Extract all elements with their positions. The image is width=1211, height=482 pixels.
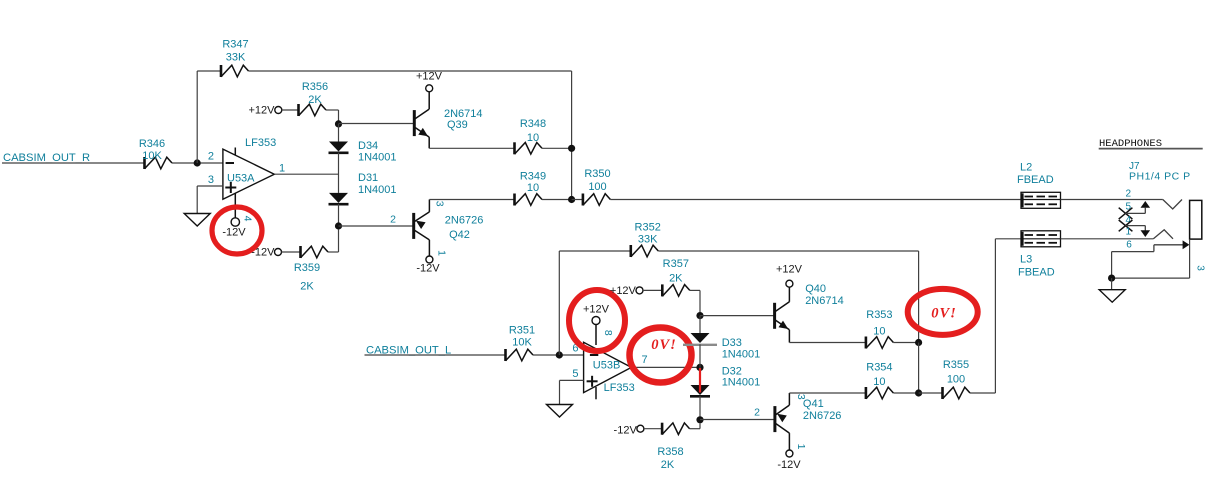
pin 2 label Q42	[390, 213, 396, 225]
svg-text:10K: 10K	[512, 337, 532, 349]
svg-text:CABSIM_OUT_R: CABSIM_OUT_R	[3, 152, 90, 164]
svg-text:R353: R353	[866, 309, 892, 321]
wire top feedback right	[249, 70, 572, 72]
wire sleeve bottom	[1112, 277, 1190, 279]
svg-text:FBEAD: FBEAD	[1018, 267, 1055, 279]
svg-text:33K: 33K	[638, 233, 658, 245]
wire R356 to diode chain	[326, 110, 339, 124]
svg-text:0V!: 0V!	[651, 337, 677, 353]
wire lower chain seg2	[699, 344, 701, 367]
wire R355 to riser	[970, 392, 995, 394]
svg-text:Q40: Q40	[805, 283, 826, 295]
pin 4 label J7	[1125, 215, 1131, 226]
wire R350 to L2	[610, 199, 1021, 201]
svg-text:U53B: U53B	[593, 360, 621, 372]
wire lower chain seg1	[699, 316, 701, 333]
wire R351 to node B	[533, 354, 584, 356]
resistor R356	[299, 81, 329, 116]
svg-text:R354: R354	[866, 362, 892, 374]
svg-text:R352: R352	[635, 221, 661, 233]
svg-text:8: 8	[602, 330, 614, 336]
svg-text:1: 1	[795, 444, 807, 450]
power +12V Q40	[776, 264, 803, 288]
pin 4 switch mark	[1119, 220, 1133, 231]
svg-text:R348: R348	[520, 118, 546, 130]
pin 5 label J7	[1125, 201, 1131, 212]
wire L2 to jack	[1061, 199, 1163, 201]
junction R349 node	[568, 196, 575, 203]
red circle annotation around -12V pin	[212, 207, 262, 254]
svg-text:LF353: LF353	[604, 382, 635, 394]
pin 1 label Q42	[435, 250, 447, 256]
wire emitter Q41 to R354	[789, 392, 866, 394]
svg-text:2: 2	[754, 407, 760, 419]
resistor R351	[506, 325, 536, 362]
svg-text:D31: D31	[358, 172, 378, 184]
ferrite bead L3	[1018, 231, 1061, 279]
svg-text:3: 3	[1195, 265, 1206, 271]
wire CABSIM_OUT_L input	[365, 354, 506, 356]
op-amp U53B	[572, 342, 647, 399]
pin 5 switch mark	[1119, 201, 1150, 219]
wire emitter Q39 to R348	[429, 147, 514, 149]
power -12V Q42	[416, 256, 440, 275]
svg-text:100: 100	[588, 181, 606, 193]
svg-text:U53A: U53A	[227, 173, 255, 185]
wire R346 to node A	[172, 162, 223, 164]
wire chain seg1	[338, 124, 340, 142]
wire R354 to junction	[893, 392, 918, 394]
net label CABSIM_OUT_R	[3, 152, 90, 164]
label PH1/4 PC P	[1129, 170, 1191, 182]
wire riser output node	[918, 343, 920, 394]
pin 3 label Q42	[433, 201, 445, 207]
power +12V for R357	[610, 285, 643, 297]
diode D32	[690, 365, 760, 396]
svg-text:PH1/4 PC P: PH1/4 PC P	[1129, 170, 1191, 182]
junction R348 node	[568, 145, 575, 152]
wire to ground G3	[1111, 278, 1113, 290]
wire L3 to jack	[1061, 238, 1154, 240]
svg-text:L2: L2	[1020, 162, 1032, 174]
resistor R353	[866, 309, 894, 349]
svg-text:7: 7	[642, 354, 648, 366]
transistor Q41	[775, 393, 842, 450]
svg-text:-12V: -12V	[614, 425, 638, 437]
wire pin 3 down	[1189, 239, 1191, 278]
svg-text:+12V: +12V	[610, 285, 637, 297]
wire L3 through	[1021, 238, 1061, 240]
connector J7 body	[1190, 200, 1202, 239]
label -12V U53A pin4	[222, 227, 246, 239]
svg-text:D33: D33	[722, 337, 742, 349]
svg-text:10: 10	[873, 326, 885, 338]
resistor R359	[294, 246, 328, 293]
junction R353 node	[915, 339, 922, 346]
junction sleeve ground	[1108, 275, 1115, 282]
wire U53B pin5	[560, 380, 584, 404]
svg-text:6: 6	[1126, 240, 1132, 251]
transistor Q42	[414, 200, 484, 257]
pin 2 label J7	[1125, 188, 1131, 199]
svg-text:1N4001: 1N4001	[358, 152, 397, 164]
svg-text:+12V: +12V	[776, 264, 803, 276]
wire feedback riser left	[196, 71, 198, 163]
wire +12V to R357	[643, 289, 662, 291]
svg-text:Q42: Q42	[449, 229, 470, 241]
wire base Q41	[700, 419, 775, 421]
svg-text:-12V: -12V	[777, 459, 801, 471]
diode D33	[691, 333, 761, 361]
resistor R348	[515, 118, 547, 154]
junction diode chain top	[335, 120, 342, 127]
svg-text:R358: R358	[657, 446, 683, 458]
junction R354 node	[915, 389, 922, 396]
power -12V for R359	[251, 247, 281, 259]
svg-text:LF353: LF353	[245, 137, 276, 149]
pin 2 label Q41	[754, 407, 760, 419]
svg-text:10: 10	[527, 132, 539, 144]
node A junction	[194, 159, 201, 166]
svg-text:-12V: -12V	[222, 227, 246, 239]
wire base Q40	[700, 315, 775, 317]
svg-text:-12V: -12V	[251, 247, 275, 259]
svg-text:1: 1	[435, 250, 447, 256]
wire U53A pin3	[197, 186, 223, 214]
svg-text:1N4001: 1N4001	[358, 184, 397, 196]
svg-text:D32: D32	[722, 365, 742, 377]
wire R348 to junction	[542, 147, 572, 149]
svg-text:-12V: -12V	[416, 263, 440, 275]
resistor R354	[866, 362, 894, 400]
svg-text:Q41: Q41	[803, 398, 824, 410]
wire L2 through	[1021, 199, 1061, 201]
svg-text:5: 5	[572, 368, 578, 380]
wire R349 to junction	[542, 199, 572, 201]
power -12V Q41	[777, 450, 801, 471]
power -12V for R358	[614, 425, 644, 437]
ground symbol G3	[1099, 290, 1125, 303]
svg-text:0V!: 0V!	[931, 306, 957, 322]
wire lower chain seg3	[699, 367, 701, 385]
svg-text:2: 2	[390, 213, 396, 225]
resistor R350	[572, 168, 611, 206]
svg-text:2N6726: 2N6726	[803, 410, 842, 422]
svg-text:1: 1	[1125, 227, 1131, 238]
gray cathode bar D33	[683, 344, 717, 346]
resistor R349	[515, 171, 547, 206]
svg-text:R349: R349	[520, 171, 546, 183]
wire emitter Q40 to R353	[789, 342, 866, 344]
svg-text:3: 3	[795, 394, 807, 400]
svg-text:+12V: +12V	[416, 71, 443, 83]
junction diode chain bottom	[335, 222, 342, 229]
svg-text:+12V: +12V	[249, 105, 276, 117]
red mark on diode wire	[699, 368, 701, 393]
svg-text:L3: L3	[1020, 254, 1032, 266]
junction lower chain bottom	[696, 416, 703, 423]
op-amp U53A pin 4 power stub	[231, 193, 254, 226]
wire feedback row right	[658, 250, 918, 252]
svg-text:R356: R356	[302, 81, 328, 93]
svg-text:1N4001: 1N4001	[722, 377, 761, 389]
header HEADPHONES	[1099, 138, 1203, 150]
power +12V for R356	[249, 105, 282, 117]
pin 6 label J7	[1126, 240, 1132, 251]
svg-text:10: 10	[873, 376, 885, 388]
wire lower chain seg4	[699, 396, 701, 420]
svg-text:100: 100	[947, 374, 965, 386]
wire chain seg3	[338, 204, 340, 226]
pin 3 label Q41	[795, 394, 807, 400]
svg-text:2K: 2K	[308, 94, 322, 106]
wire CABSIM_OUT_R input	[2, 162, 145, 164]
wire feedback row left	[559, 250, 631, 252]
wire base Q39	[339, 123, 415, 125]
resistor R346	[139, 138, 172, 169]
svg-text:10K: 10K	[142, 150, 162, 162]
svg-text:R355: R355	[943, 359, 969, 371]
wire emitter Q42 to R349	[429, 199, 514, 201]
resistor R358	[657, 423, 689, 471]
wire R358 to junction	[690, 423, 700, 428]
ground symbol G2	[547, 405, 573, 418]
red circle annotation around +12V pin	[569, 290, 625, 351]
svg-text:R347: R347	[222, 39, 248, 51]
svg-text:33K: 33K	[226, 52, 246, 64]
label +12V U53B pin8	[583, 304, 610, 316]
svg-text:4: 4	[242, 216, 254, 222]
resistor R357	[662, 258, 690, 296]
svg-text:R357: R357	[663, 258, 689, 270]
svg-text:10: 10	[527, 182, 539, 194]
wire to L3	[995, 238, 1021, 240]
wire top feedback left	[197, 70, 221, 72]
resistor R352	[631, 221, 661, 257]
wire U53B output pin7	[631, 366, 700, 368]
svg-text:1: 1	[279, 163, 285, 175]
ground symbol G1	[184, 214, 210, 227]
svg-text:1N4001: 1N4001	[722, 349, 761, 361]
wire feedback riser x559	[558, 251, 560, 355]
svg-text:D34: D34	[358, 140, 378, 152]
power +12V Q39	[416, 71, 443, 92]
pin 1 label Q41	[795, 444, 807, 450]
svg-text:Q39: Q39	[447, 119, 468, 131]
diode D34	[329, 140, 397, 164]
node B junction	[556, 351, 563, 358]
wire U53A output	[274, 173, 338, 175]
wire R357 to diode chain	[690, 290, 700, 315]
svg-text:2K: 2K	[661, 459, 675, 471]
svg-text:2N6714: 2N6714	[805, 295, 844, 307]
op-amp U53A	[208, 137, 285, 199]
junction lower chain top	[696, 312, 703, 319]
wire -12V to R358	[644, 428, 662, 430]
svg-text:R350: R350	[584, 168, 610, 180]
wire feedback riser x571	[571, 71, 573, 200]
svg-text:R346: R346	[139, 138, 165, 150]
wire chain seg2	[338, 153, 340, 193]
svg-text:R359: R359	[294, 262, 320, 274]
wire -12V to R359	[282, 251, 301, 253]
net label CABSIM_OUT_L	[366, 345, 451, 357]
wire riser to L3	[994, 239, 996, 393]
wire base Q42	[339, 225, 414, 227]
transistor Q39	[414, 92, 482, 149]
svg-text:2K: 2K	[669, 273, 683, 285]
wire feedback riser x918	[918, 251, 920, 343]
connector J7 sleeve arrow	[1112, 240, 1190, 251]
wire +12V to R356	[282, 109, 299, 111]
wire sleeve down	[1111, 252, 1113, 279]
junction output node lower	[696, 364, 703, 371]
resistor R355	[919, 359, 970, 399]
svg-text:2K: 2K	[300, 281, 314, 293]
svg-text:2: 2	[1125, 188, 1131, 199]
wire R353 to junction	[893, 342, 918, 344]
red annotation 0V! at output node	[908, 289, 978, 335]
pin 3 label J7	[1195, 265, 1206, 271]
red annotation 0V! at pin7	[630, 328, 692, 383]
svg-text:R351: R351	[509, 325, 535, 337]
resistor R347	[221, 39, 249, 78]
svg-text:2: 2	[208, 151, 214, 163]
svg-text:2N6726: 2N6726	[445, 214, 484, 226]
label J7	[1129, 161, 1140, 172]
connector J7 pin 6 contact	[1153, 230, 1173, 239]
svg-text:+12V: +12V	[583, 304, 610, 316]
svg-text:3: 3	[208, 174, 214, 186]
svg-text:3: 3	[433, 201, 445, 207]
ferrite bead L2	[1017, 162, 1061, 209]
diode D31	[329, 172, 397, 204]
connector J7 pin 2 contact	[1163, 200, 1182, 210]
pin 1 label J7	[1125, 227, 1131, 238]
svg-text:2N6714: 2N6714	[444, 108, 483, 120]
op-amp U53B pin 8 power stub	[592, 317, 614, 346]
pin 1 switch mark	[1126, 226, 1151, 237]
wire R359 to junction	[328, 230, 339, 252]
transistor Q40	[775, 283, 844, 343]
svg-text:FBEAD: FBEAD	[1017, 174, 1054, 186]
